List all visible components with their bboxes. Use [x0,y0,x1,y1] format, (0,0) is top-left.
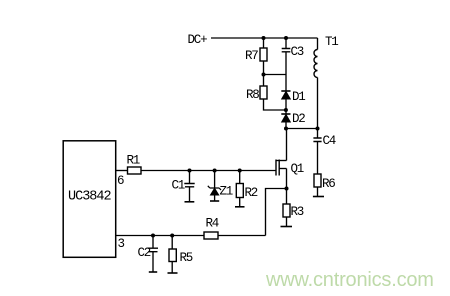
capacitor C3 [282,49,291,52]
wire Z1 top lead [214,171,216,189]
wire R2 top lead [239,171,241,184]
wire R7 bottom lead [263,61,265,75]
pin 6 [117,174,124,188]
node DC+ label [188,33,208,47]
wire C4 top lead [317,129,319,139]
svg-text:R7: R7 [245,49,258,63]
wire D2 to drain node [285,122,287,129]
svg-text:C3: C3 [291,45,304,59]
svg-text:Q1: Q1 [291,162,304,176]
wire Z1 bottom lead [214,195,216,201]
capacitor C4 [313,138,321,142]
node junction dot D1 D2 [284,108,288,112]
wire source to R4 net [266,189,287,236]
svg-text:6: 6 [117,174,124,188]
resistor R1 [128,167,142,174]
wire C4 to R6 [317,142,319,175]
transformer T1 [317,38,319,50]
ground Z1 [210,200,219,202]
node junction dot T1 bottom [316,127,320,131]
svg-text:T1: T1 [325,35,338,49]
wire R3 bottom lead [286,217,288,227]
resistor R4 [204,232,218,239]
wire R7 top lead [263,38,265,48]
node junction dot C2 [151,234,155,238]
wire R5 top lead [171,236,173,250]
node junction dot Q1 source [285,187,289,191]
wire top rail DC+ [211,37,318,39]
svg-text:www.cntronics.com: www.cntronics.com [265,269,434,291]
resistor R8 [260,86,267,99]
ground C1 [185,201,195,203]
ground R6 [313,196,324,198]
op-amp U1 UC3842 [63,141,115,257]
resistor R7 [260,48,267,61]
wire drain node to T1 bottom [286,128,318,130]
resistor R5 [169,249,176,262]
wire C3 to D1 [285,52,287,91]
node junction dot R7 bottom [262,73,266,77]
svg-text:R6: R6 [322,177,335,191]
wire D1 to D2 [285,99,287,114]
svg-text:Z1: Z1 [220,185,233,199]
svg-text:D1: D1 [292,90,305,104]
wire R8 bottom lead [264,99,286,110]
zener Z1 [208,186,221,190]
transistor Q1 [286,129,288,161]
wire C2 bottom lead [152,252,154,272]
ground C2 [149,271,157,273]
wire R8 top lead [263,75,265,87]
svg-text:C4: C4 [323,134,336,148]
svg-text:R8: R8 [246,88,259,102]
wire R6 bottom lead [317,187,319,197]
svg-text:R2: R2 [245,186,258,200]
node junction dot drain [284,127,288,131]
wire C1 bottom lead [189,187,191,202]
node junction dot C1 [188,169,192,173]
wire R2 bottom lead [239,198,241,207]
wire cross R7C3 [264,74,287,76]
capacitor C1 [184,184,194,187]
resistor R3 [283,204,290,217]
ground R5 [168,272,178,274]
wire C3 top lead [285,38,287,49]
node junction dot R7 top [262,36,266,40]
wire C1 top lead [189,171,191,184]
svg-text:C1: C1 [172,179,185,193]
pin 3 [118,237,125,251]
wire R3 top lead [286,189,288,205]
node junction dot C3 top [284,36,288,40]
ground R2 [235,206,245,208]
svg-text:DC+: DC+ [188,33,208,47]
capacitor C2 [148,248,158,252]
svg-text:R1: R1 [127,154,140,168]
wire pin 6 lead [116,170,128,172]
resistor R6 [314,174,321,187]
node junction dot R2 [238,169,242,173]
wire R5 bottom lead [171,262,173,274]
node junction dot Z1 [213,169,217,173]
diode D1 [281,90,290,92]
svg-text:UC3842: UC3842 [68,190,112,205]
ground R3 [281,226,293,228]
wire pin 3 net [116,235,266,237]
resistor R2 [236,184,243,198]
svg-text:R4: R4 [206,217,219,231]
diode D2 [281,113,290,115]
svg-text:R3: R3 [291,205,304,219]
svg-text:R5: R5 [180,251,193,265]
wire C2 top lead [152,236,154,249]
wire R1 to gate [141,170,276,172]
svg-text:3: 3 [118,237,125,251]
svg-text:D2: D2 [292,112,305,126]
svg-text:C2: C2 [138,246,151,260]
node junction dot R5 [170,234,174,238]
